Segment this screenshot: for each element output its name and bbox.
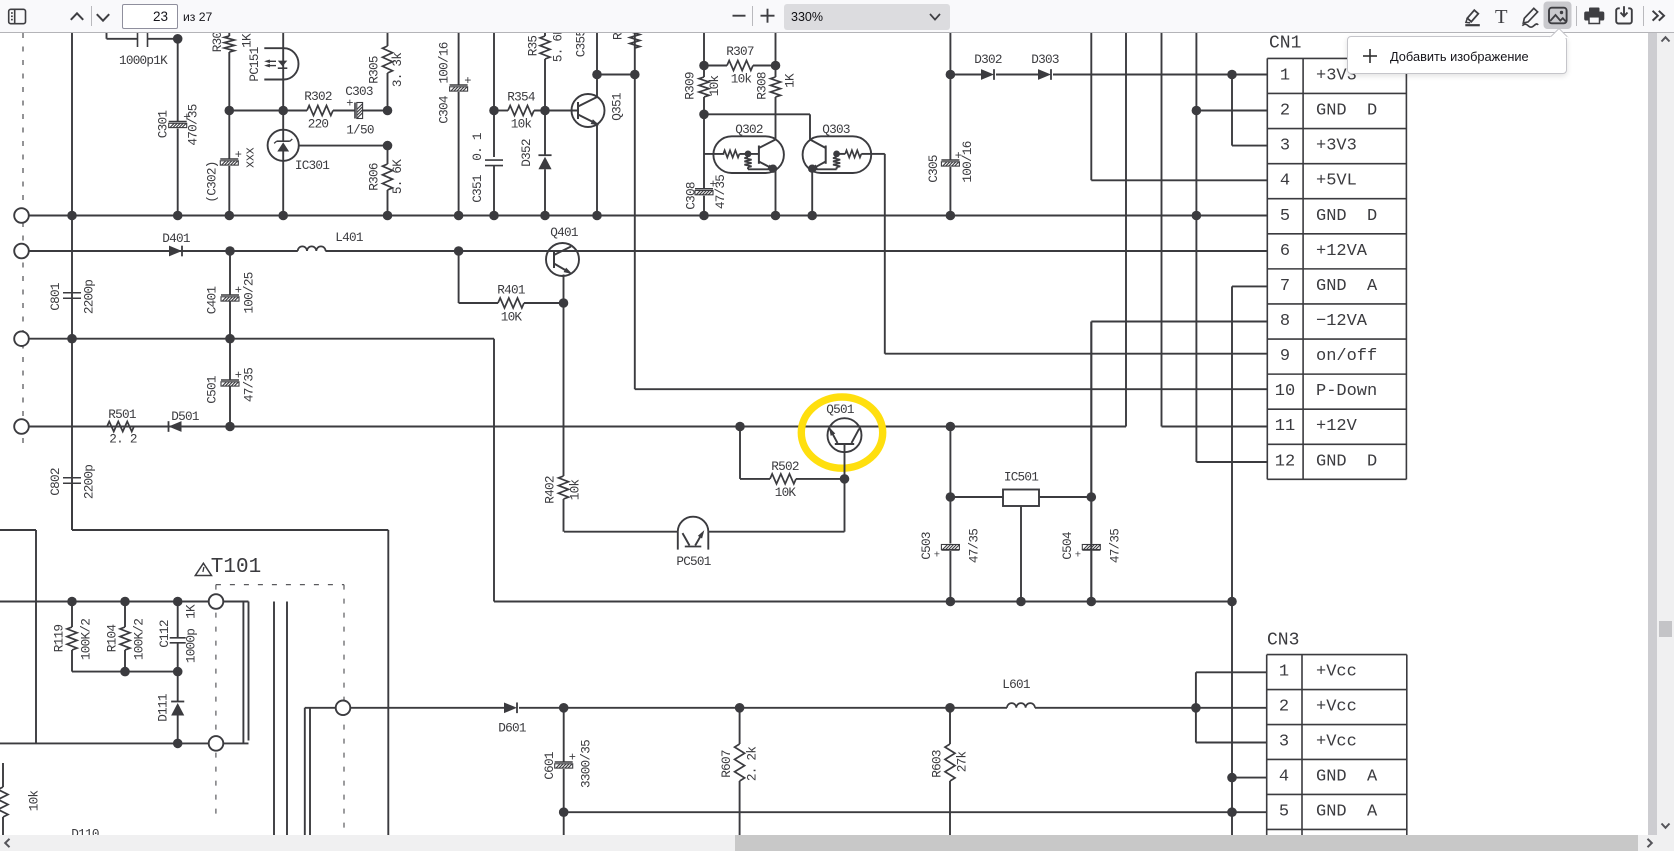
wire D401 to L401 bbox=[185, 250, 298, 252]
terminal circle GND bus bbox=[14, 208, 29, 223]
svg-text:on/off: on/off bbox=[1316, 347, 1377, 366]
svg-text:R309: R309 bbox=[683, 72, 698, 100]
svg-text:10k: 10k bbox=[27, 791, 42, 812]
wire R307 row bbox=[704, 65, 727, 67]
wire below C301 bbox=[177, 129, 179, 216]
transistor Q401 bbox=[546, 243, 579, 276]
wire +12V rail y=426 bbox=[29, 426, 1126, 428]
svg-text:R501: R501 bbox=[108, 407, 136, 422]
svg-text:1K: 1K bbox=[184, 604, 199, 619]
svg-text:6: 6 bbox=[1280, 242, 1290, 261]
svg-text:4: 4 bbox=[1279, 767, 1289, 786]
svg-text:+: + bbox=[235, 148, 242, 162]
previous page chevron bbox=[71, 13, 83, 19]
svg-text:C308: C308 bbox=[684, 182, 699, 210]
resistor R402 10k bbox=[563, 303, 565, 476]
svg-text:C801: C801 bbox=[48, 283, 63, 311]
wire T101 primary feed y=601 bbox=[0, 601, 209, 603]
svg-text:GND A: GND A bbox=[1316, 277, 1378, 296]
svg-text:R104: R104 bbox=[105, 625, 120, 653]
sidebar toggle icon bbox=[9, 9, 26, 23]
image tool button (active) bbox=[1544, 2, 1572, 30]
svg-text:+Vcc: +Vcc bbox=[1316, 698, 1357, 717]
diode D303 bbox=[1038, 69, 1051, 80]
junction dots on GND bus bbox=[67, 211, 77, 221]
svg-text:C112: C112 bbox=[157, 620, 172, 648]
resistor R352 5.6K bbox=[544, 33, 546, 36]
wire vertical x=1091 to pin4 bbox=[1090, 33, 1092, 180]
wire R309 to Q303 base bbox=[704, 113, 810, 115]
wire pin7 riser x=1232 bbox=[1231, 286, 1233, 835]
terminal circle mid rail bbox=[14, 331, 29, 346]
terminal circle +12VA rail bbox=[14, 244, 29, 259]
svg-text:+: + bbox=[1075, 550, 1081, 562]
zoom percent select bbox=[784, 4, 950, 30]
resistor R306 5.6K bbox=[387, 146, 389, 164]
junction dot 1000p-C301 bbox=[173, 34, 183, 44]
svg-text:R603: R603 bbox=[930, 750, 945, 778]
transistor Q351 bbox=[572, 94, 605, 127]
svg-text:L601: L601 bbox=[1002, 677, 1030, 692]
wire IC301 through bbox=[282, 130, 284, 141]
svg-text:PC501: PC501 bbox=[676, 554, 710, 569]
junction dots primary feed bbox=[67, 597, 77, 607]
svg-text:R402: R402 bbox=[543, 476, 558, 504]
wire CN3 +Vcc bracket bbox=[1195, 672, 1197, 742]
svg-text:R30: R30 bbox=[210, 32, 225, 53]
diode D601 bbox=[504, 702, 517, 713]
svg-text:−12VA: −12VA bbox=[1316, 312, 1368, 331]
wire vertical x=1232 to pin3 bbox=[1231, 75, 1233, 146]
svg-text:5: 5 bbox=[1279, 802, 1289, 821]
svg-text:P-Down: P-Down bbox=[1316, 382, 1377, 401]
svg-text:10k: 10k bbox=[511, 117, 532, 132]
zoom out minus bbox=[733, 15, 746, 17]
capacitor C801 2200p bbox=[71, 32, 73, 34]
resistor R3xx partial top bbox=[630, 30, 640, 48]
svg-text:IC501: IC501 bbox=[1004, 470, 1038, 485]
diode D401 bbox=[29, 250, 169, 252]
capacitor 1000p/1K plates bbox=[137, 31, 139, 47]
svg-text:1/50: 1/50 bbox=[346, 123, 374, 138]
transformer T101 primary terminal 1 bbox=[209, 594, 224, 609]
svg-text:C305: C305 bbox=[926, 155, 941, 183]
junction dot pin2 node bbox=[1192, 106, 1202, 116]
junction dot R305-R306 bbox=[383, 141, 393, 151]
svg-text:8: 8 bbox=[1280, 312, 1290, 331]
wire GND A rail y=812 bbox=[564, 811, 1267, 813]
junction dot pin4 bbox=[1227, 773, 1237, 783]
junction dot R401 tap bbox=[454, 246, 464, 256]
capacitor C305 100/16 bbox=[941, 159, 959, 161]
svg-text:GND D: GND D bbox=[1316, 207, 1377, 226]
svg-text:+3V3: +3V3 bbox=[1316, 137, 1357, 156]
wire on/off line y=354 bbox=[885, 353, 1267, 355]
junction dots on +12V rail bbox=[225, 422, 235, 432]
transistor Q501 bbox=[828, 418, 862, 452]
wire P-Down line y=389 bbox=[635, 388, 1267, 390]
svg-text:C802: C802 bbox=[48, 468, 63, 496]
wire Q303 emitter down bbox=[811, 169, 813, 216]
wire vertical x=494 (338 to 601) bbox=[493, 339, 495, 602]
next page chevron bbox=[97, 14, 109, 21]
svg-text:R306: R306 bbox=[367, 163, 382, 191]
draw tool icon bbox=[1522, 8, 1538, 27]
svg-text:C501: C501 bbox=[205, 376, 220, 404]
diode D302 bbox=[981, 69, 994, 80]
svg-text:IC301: IC301 bbox=[295, 158, 329, 173]
svg-text:1K: 1K bbox=[240, 33, 255, 48]
wire vertical x=494 top bbox=[493, 33, 495, 157]
svg-text:C401: C401 bbox=[205, 287, 220, 315]
svg-text:+: + bbox=[934, 550, 940, 562]
junction dots R307 ends bbox=[699, 61, 709, 71]
junction dot GND A at 1232 bbox=[1227, 807, 1237, 817]
wire C802 corner to x=388 bbox=[71, 481, 73, 531]
capacitor C504 47/35 bbox=[1090, 322, 1092, 544]
svg-text:47/35: 47/35 bbox=[242, 368, 257, 402]
junction dot R354 left bbox=[489, 106, 499, 116]
svg-text:+: + bbox=[464, 74, 471, 88]
digital transistor Q303 bbox=[803, 136, 872, 173]
svg-text:0. 1: 0. 1 bbox=[470, 133, 485, 161]
wire +12VA rail y=251 left of L401 bbox=[29, 250, 298, 252]
wire CN3 pin4 line bbox=[1232, 777, 1267, 779]
wire vertical x=458 (C304) bbox=[458, 33, 460, 85]
svg-text:47/35: 47/35 bbox=[967, 529, 982, 563]
junction dot IC501 right node bbox=[1087, 492, 1097, 502]
svg-text:1000p1K: 1000p1K bbox=[119, 53, 168, 68]
wire C302 lower bbox=[228, 166, 230, 216]
junction dot D401-C401 bbox=[225, 246, 235, 256]
svg-text:R119: R119 bbox=[52, 625, 67, 653]
junction dot x=635 on D-line bbox=[630, 70, 640, 80]
transformer T101 primary terminal 2 bbox=[209, 736, 224, 751]
wire CN1 pin11 line bbox=[1162, 426, 1268, 428]
optocoupler PC151 LED side bbox=[264, 47, 284, 49]
resistor R354 10k bbox=[494, 110, 508, 112]
svg-text:1: 1 bbox=[1280, 66, 1290, 85]
svg-text:12: 12 bbox=[1275, 452, 1295, 471]
capacitor C802 2200p bbox=[63, 477, 81, 479]
svg-text:10: 10 bbox=[1275, 382, 1295, 401]
svg-text:2: 2 bbox=[1280, 102, 1290, 121]
wire pin2 line bbox=[1196, 110, 1267, 112]
junction dots +Vcc rail bbox=[559, 703, 569, 713]
wire mid rail y=338 bbox=[29, 338, 494, 340]
resistor R119 100K/2 bbox=[71, 602, 73, 628]
wire secondary out y=708 bbox=[350, 707, 504, 709]
inductor L401 bbox=[298, 246, 326, 251]
wire vertical x=704 top bbox=[703, 33, 705, 66]
svg-text:4: 4 bbox=[1280, 172, 1290, 191]
label T101 bbox=[195, 563, 211, 575]
wire x=704 to C308 bbox=[703, 114, 705, 188]
svg-text:5. 6K: 5. 6K bbox=[390, 159, 405, 194]
svg-text:2200p: 2200p bbox=[82, 465, 97, 499]
add image popup bbox=[1347, 36, 1567, 74]
svg-text:2200p: 2200p bbox=[82, 280, 97, 314]
junction dot C601 gnd bbox=[559, 807, 569, 817]
svg-text:100K/2: 100K/2 bbox=[132, 619, 147, 660]
svg-text:Q401: Q401 bbox=[550, 225, 578, 240]
svg-text:D352: D352 bbox=[519, 139, 534, 167]
svg-text:+: + bbox=[569, 751, 576, 765]
diode D111 bbox=[177, 672, 179, 702]
wire below C304 bbox=[458, 92, 460, 216]
wire x=950 (+12V to GND2) bbox=[949, 427, 951, 544]
svg-text:GND A: GND A bbox=[1316, 767, 1378, 786]
svg-text:C503: C503 bbox=[919, 532, 934, 560]
junction dot D-line at x=950 bbox=[946, 70, 956, 80]
junction dot IC501 left node bbox=[946, 492, 956, 502]
wire C302 upper bbox=[228, 111, 230, 159]
svg-text:T101: T101 bbox=[211, 556, 261, 579]
svg-text:1K: 1K bbox=[783, 73, 798, 88]
page count label bbox=[183, 10, 212, 24]
capacitor C601 3300/35 bbox=[563, 708, 565, 762]
resistor R302 220 bbox=[229, 110, 307, 112]
wire vertical x=1196 (GND D riser) bbox=[1195, 33, 1197, 462]
wire below C308 bbox=[703, 196, 705, 216]
svg-text:(C302): (C302) bbox=[205, 161, 220, 202]
capacitor C304 100/16 bbox=[450, 84, 468, 86]
svg-text:GND D: GND D bbox=[1316, 452, 1377, 471]
wire C305 to bus bbox=[949, 167, 951, 216]
svg-text:100/16: 100/16 bbox=[960, 141, 975, 182]
svg-text:+: + bbox=[346, 97, 353, 111]
capacitor C112 1000p 1K bbox=[177, 602, 179, 638]
transformer T101 secondary winding bbox=[305, 707, 336, 709]
wire Q501 base to PC501 bbox=[844, 479, 846, 532]
svg-text:10K: 10K bbox=[775, 485, 797, 500]
junction dots on GND2 bus bbox=[946, 597, 956, 607]
svg-text:D302: D302 bbox=[974, 52, 1002, 67]
wire below C351 bbox=[493, 166, 495, 216]
resistor R308 1K bbox=[775, 66, 777, 78]
wire vertical x=775 top bbox=[775, 33, 777, 66]
optocoupler PC501 bbox=[564, 531, 678, 533]
svg-text:GND D: GND D bbox=[1316, 102, 1377, 121]
wire R119/R104 bottom tie bbox=[72, 671, 178, 673]
svg-text:Q302: Q302 bbox=[735, 122, 763, 137]
svg-text:2: 2 bbox=[1279, 698, 1289, 717]
svg-text:+Vcc: +Vcc bbox=[1316, 733, 1357, 752]
svg-text:47/35: 47/35 bbox=[713, 175, 728, 209]
wire vertical x=283 top bbox=[282, 33, 284, 130]
svg-text:5: 5 bbox=[1280, 207, 1290, 226]
print icon bbox=[1584, 8, 1604, 24]
inductor L601 bbox=[1007, 703, 1035, 708]
resistor R305 3.3k bbox=[387, 33, 389, 46]
svg-text:1000p: 1000p bbox=[184, 629, 199, 663]
resistor R301 1K bbox=[228, 33, 230, 36]
diode D501 bbox=[169, 421, 182, 432]
resistor R309 10k bbox=[703, 66, 705, 78]
svg-text:R401: R401 bbox=[497, 283, 525, 298]
svg-text:+Vcc: +Vcc bbox=[1316, 663, 1357, 682]
annotation yellow circle bbox=[801, 397, 882, 468]
junction dot IC301 node bbox=[278, 106, 288, 116]
resistor R502 10K bbox=[739, 427, 741, 479]
svg-text:2. 2k: 2. 2k bbox=[745, 747, 760, 781]
svg-text:D501: D501 bbox=[171, 409, 199, 424]
transformer T101 secondary terminal bbox=[336, 701, 351, 716]
svg-text:27k: 27k bbox=[955, 752, 970, 773]
capacitor C401 100/25 bbox=[229, 251, 231, 295]
svg-text:R35: R35 bbox=[526, 36, 541, 57]
svg-text:R302: R302 bbox=[304, 89, 332, 104]
svg-text:R354: R354 bbox=[507, 90, 535, 105]
wire +12VA rail y=251 L401 to Q401 bbox=[325, 250, 546, 252]
svg-text:R: R bbox=[611, 32, 626, 40]
capacitor C301 470/35 bbox=[169, 121, 187, 123]
resistor R501 2.2 bbox=[107, 422, 134, 432]
page number input bbox=[122, 4, 178, 29]
wire vertical x=72 bbox=[71, 33, 73, 530]
svg-text:100/16: 100/16 bbox=[437, 42, 452, 83]
svg-text:CN1: CN1 bbox=[1269, 34, 1301, 54]
wire +12VA rail y=251 Q401 to CN1 pin6 bbox=[579, 250, 1268, 252]
svg-text:L401: L401 bbox=[335, 230, 363, 245]
save icon bbox=[1616, 6, 1632, 23]
wire T101 primary2 feed y=743 bbox=[0, 742, 209, 744]
svg-text:PC151: PC151 bbox=[247, 47, 262, 81]
junction dot R354-D352 bbox=[540, 106, 550, 116]
junction dot R309 bottom bbox=[699, 110, 709, 120]
connector CN1 table bbox=[1267, 58, 1406, 479]
transformer T101 dashed box bbox=[216, 585, 344, 833]
svg-text:CN3: CN3 bbox=[1267, 631, 1299, 651]
svg-text:R307: R307 bbox=[726, 44, 754, 59]
svg-text:Q351: Q351 bbox=[610, 93, 625, 121]
wire Q302 emitter down bbox=[775, 169, 777, 216]
svg-text:R607: R607 bbox=[719, 750, 734, 778]
svg-text:Q501: Q501 bbox=[826, 402, 854, 417]
svg-text:T: T bbox=[1495, 6, 1508, 28]
regulator IC501 bbox=[1003, 490, 1039, 507]
svg-text:xxx: xxx bbox=[243, 147, 258, 169]
svg-text:2. 2: 2. 2 bbox=[109, 432, 137, 447]
wire left stub y=530 bbox=[0, 529, 36, 531]
junction dot C112-D111 bottom bbox=[173, 739, 183, 749]
svg-text:C304: C304 bbox=[437, 96, 452, 124]
svg-text:3300/35: 3300/35 bbox=[579, 740, 594, 788]
IC301 regulator circle bbox=[268, 130, 299, 161]
resistor R603 27k bbox=[949, 708, 951, 744]
wire vertical x=177 (C301) bbox=[177, 39, 179, 121]
svg-text:+12VA: +12VA bbox=[1316, 242, 1368, 261]
wire 1000p cap line bbox=[107, 38, 138, 40]
svg-text:Q303: Q303 bbox=[822, 122, 850, 137]
svg-text:10k: 10k bbox=[707, 76, 722, 97]
connector CN3 table bbox=[1267, 655, 1407, 835]
svg-text:R308: R308 bbox=[755, 72, 770, 100]
wire +Vcc rail y=708 bbox=[519, 707, 1007, 709]
svg-text:10k: 10k bbox=[731, 72, 752, 87]
wire R401 row bbox=[458, 251, 460, 303]
resistor bottom-left 10k bbox=[2, 763, 4, 787]
junction dot Q501 base bbox=[840, 474, 850, 484]
svg-text:11: 11 bbox=[1275, 417, 1295, 436]
highlight tool icon bbox=[1465, 10, 1480, 25]
svg-text:C301: C301 bbox=[156, 111, 171, 139]
resistor R104 100K/2 bbox=[124, 602, 126, 628]
capacitor C303 1/50 bbox=[354, 103, 356, 119]
svg-text:C351: C351 bbox=[470, 175, 485, 203]
svg-text:+12V: +12V bbox=[1316, 417, 1358, 436]
wire vertical x=635 (top to P-Down) bbox=[634, 33, 636, 389]
transformer T101 core bbox=[273, 602, 275, 836]
junction dot D-line at x=1232 bbox=[1227, 70, 1237, 80]
svg-text:100/25: 100/25 bbox=[242, 272, 257, 313]
svg-text:R305: R305 bbox=[367, 56, 382, 84]
svg-text:47/35: 47/35 bbox=[1108, 529, 1123, 563]
svg-text:1: 1 bbox=[1279, 663, 1289, 682]
resistor R607 2.2k bbox=[739, 708, 741, 744]
svg-text:+5VL: +5VL bbox=[1316, 172, 1357, 191]
svg-text:10k: 10k bbox=[568, 480, 583, 501]
scrollbars bbox=[1648, 33, 1657, 835]
svg-text:C504: C504 bbox=[1060, 532, 1075, 560]
wire pin8 jog bbox=[1090, 322, 1092, 602]
junction dot C303-R305 bbox=[383, 106, 393, 116]
wire IC301 to R305/R306 bbox=[299, 145, 388, 147]
terminal circle +12V rail bbox=[14, 419, 29, 434]
wire GND2 bus y=601 bbox=[494, 601, 1232, 603]
capacitor (C302) xxx bbox=[220, 158, 238, 160]
wire vertical x=885 (Q303 to on/off) bbox=[884, 154, 886, 354]
svg-text:100K/2: 100K/2 bbox=[79, 619, 94, 660]
svg-text:3: 3 bbox=[1279, 733, 1289, 752]
zoom select chevron bbox=[932, 13, 941, 18]
toolbar bbox=[0, 0, 1674, 33]
dashed fold line left bbox=[22, 33, 24, 445]
junction dot Q351 collector bbox=[592, 70, 602, 80]
svg-text:220: 220 bbox=[308, 117, 329, 132]
svg-text:10K: 10K bbox=[501, 310, 523, 325]
more tools chevrons bbox=[1653, 11, 1664, 21]
capacitor C501 47/35 bbox=[229, 339, 231, 380]
digital transistor Q302 bbox=[713, 136, 784, 173]
svg-text:C601: C601 bbox=[542, 752, 557, 780]
wire GND bus y=216 bbox=[29, 215, 1267, 217]
svg-text:9: 9 bbox=[1280, 347, 1290, 366]
wire vertical x=950 top bbox=[949, 33, 951, 160]
capacitor C503 47/35 bbox=[941, 545, 959, 550]
svg-text:3: 3 bbox=[1280, 137, 1290, 156]
wire +Vcc rail after L601 bbox=[1035, 707, 1267, 709]
svg-text:C355: C355 bbox=[574, 30, 589, 58]
svg-text:D601: D601 bbox=[498, 721, 526, 736]
zoom in plus bbox=[761, 15, 775, 17]
wire vertical x=1126 (+12V riser) bbox=[1125, 33, 1127, 427]
svg-text:R502: R502 bbox=[771, 459, 799, 474]
capacitor C351 0.1 bbox=[485, 159, 503, 161]
svg-text:D111: D111 bbox=[156, 694, 171, 722]
svg-text:3. 3k: 3. 3k bbox=[390, 53, 405, 87]
junction dots bottom tie bbox=[120, 667, 130, 677]
diode D352 bbox=[544, 111, 546, 156]
transformer T101 primary winding bbox=[223, 601, 248, 603]
wire C355 to Q351 collector bbox=[596, 33, 598, 75]
svg-text:D303: D303 bbox=[1031, 52, 1059, 67]
wire vertical x=1161 to pin11 bbox=[1161, 33, 1163, 427]
junction dot R301-R302 node bbox=[225, 106, 235, 116]
junction dot R401-Q401 bbox=[559, 298, 569, 308]
svg-text:7: 7 bbox=[1280, 277, 1290, 296]
wire D302/D303 line bbox=[950, 74, 981, 76]
